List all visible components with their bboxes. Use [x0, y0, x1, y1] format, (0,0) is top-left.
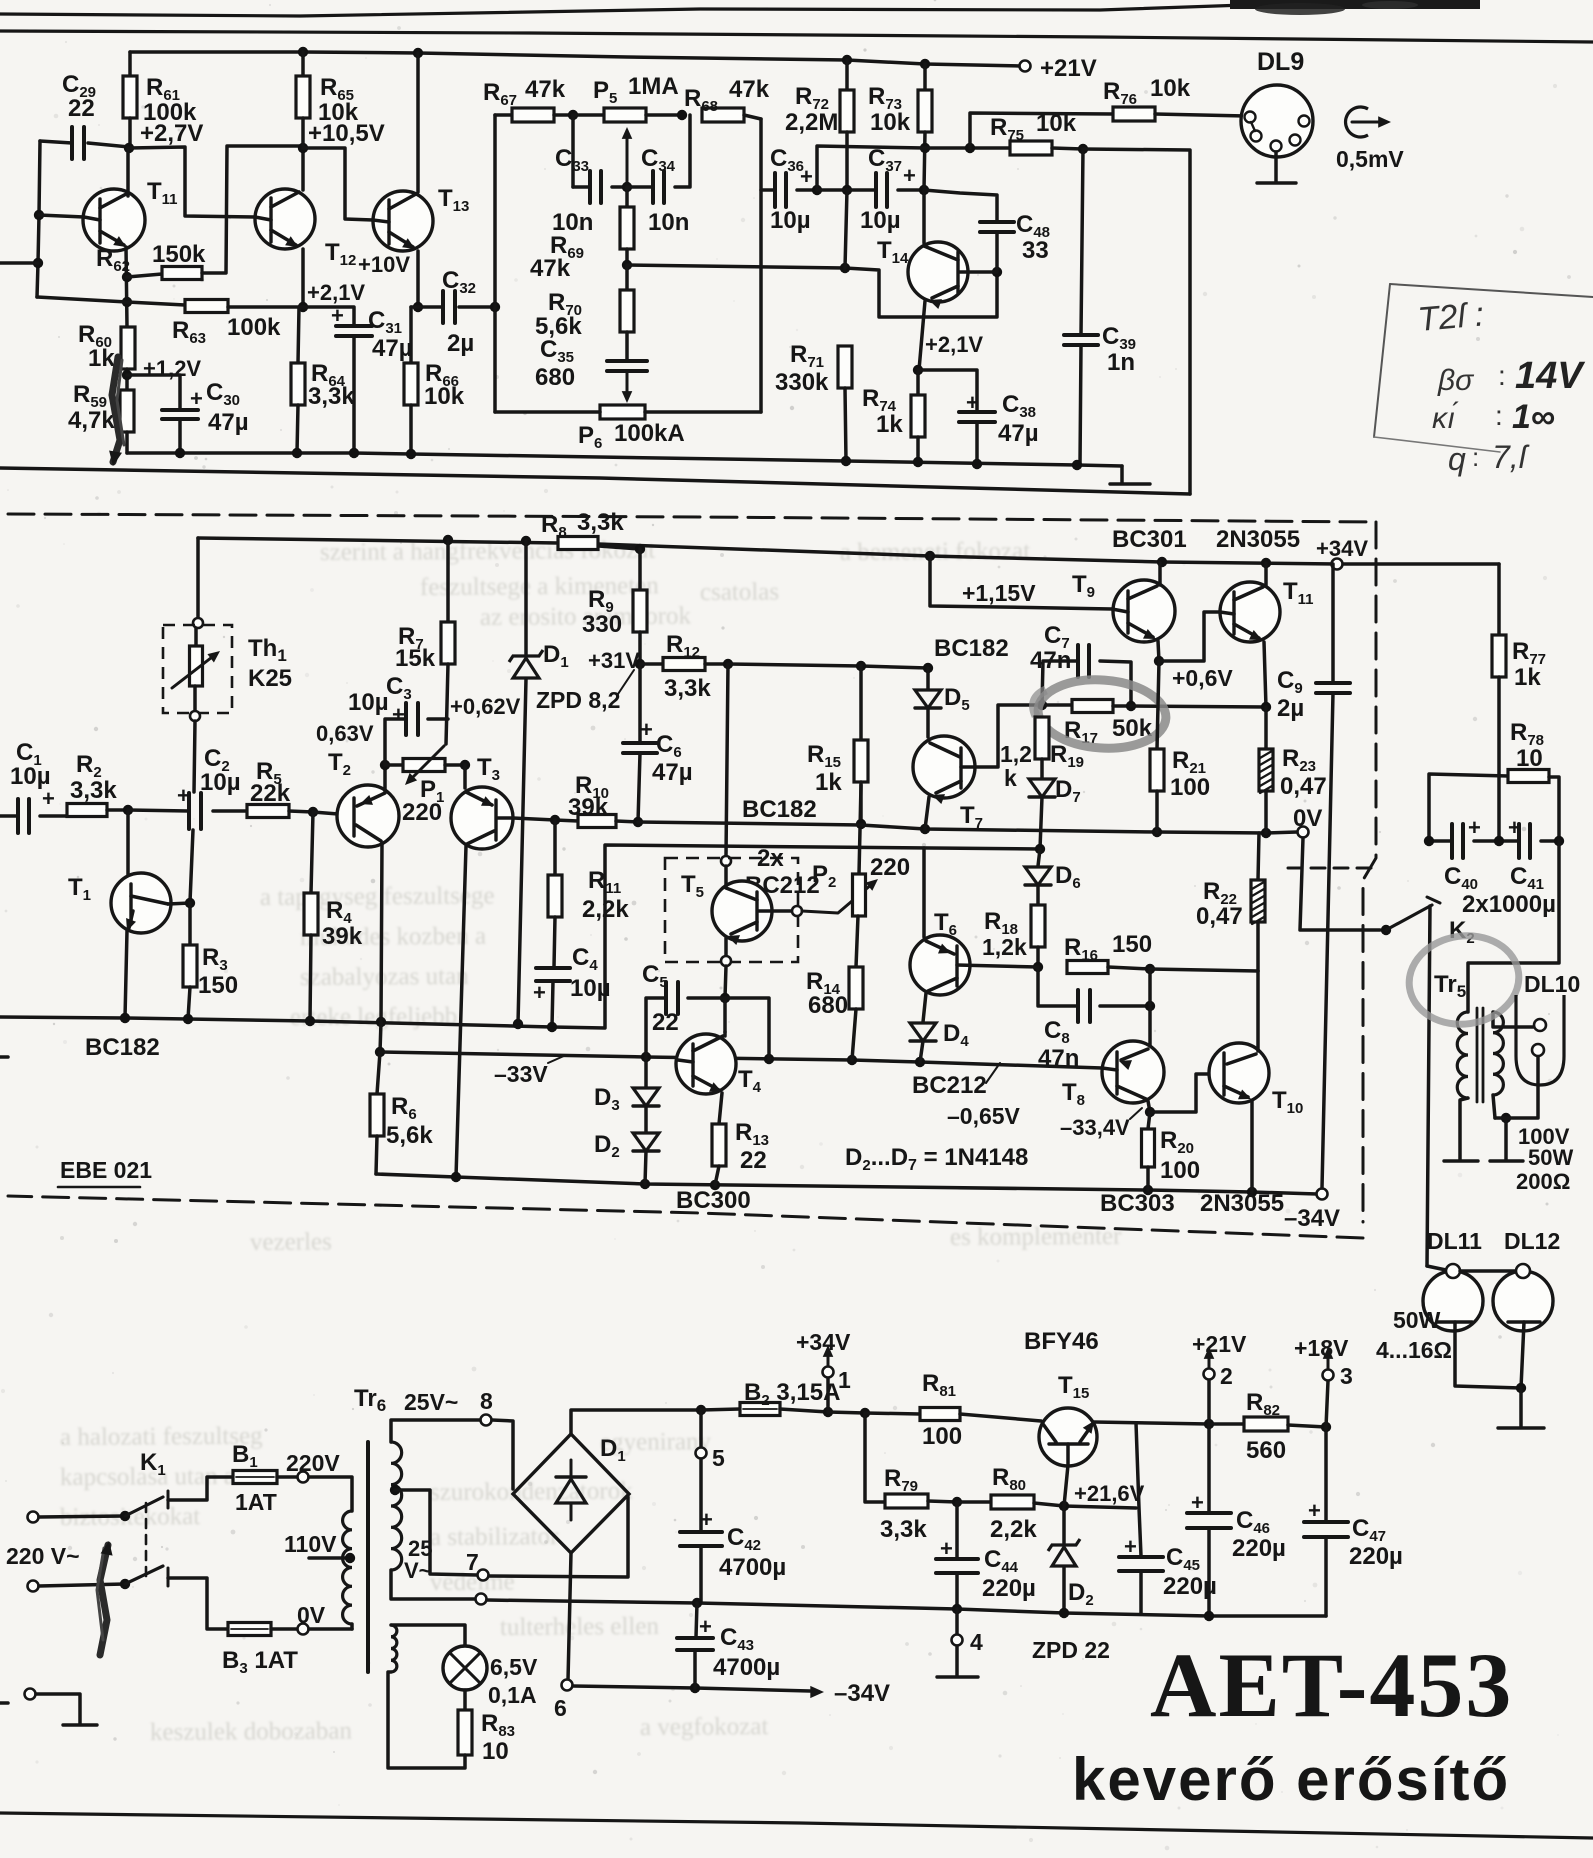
svg-text:–33,4V: –33,4V	[1060, 1115, 1130, 1140]
diode D5	[926, 668, 930, 689]
terminal 1 +34V	[826, 1378, 830, 1412]
svg-text:DL10: DL10	[1524, 971, 1580, 997]
wire top ground rail	[127, 453, 1122, 466]
svg-text:10n: 10n	[648, 209, 689, 236]
node T5 feed	[723, 659, 733, 669]
diode D6	[1038, 849, 1040, 866]
node R21-0V	[1152, 827, 1162, 837]
node C6 bottom	[633, 817, 643, 827]
resistor R59	[120, 390, 134, 432]
wire R75 line	[817, 146, 925, 190]
svg-text:100kA: 100kA	[614, 420, 685, 447]
svg-text:47n: 47n	[1038, 1045, 1079, 1072]
svg-text:8: 8	[480, 1388, 493, 1414]
transistor T9	[930, 556, 1112, 609]
node +10,5V	[298, 143, 308, 153]
node D2 gnd	[640, 1179, 650, 1189]
resistor R74	[916, 370, 920, 395]
capacitor C43	[696, 1603, 697, 1637]
resistor R71	[838, 346, 852, 388]
svg-text:14V: 14V	[1515, 355, 1585, 397]
transistor T15	[1039, 1408, 1097, 1466]
node C33 top	[568, 110, 578, 120]
pencil circle Tr5	[1403, 929, 1524, 1031]
node P1 left	[380, 760, 390, 770]
capacitor C6	[638, 664, 642, 743]
svg-text:0V: 0V	[297, 1602, 326, 1628]
capacitor C31	[303, 307, 354, 326]
svg-text:1k: 1k	[815, 769, 842, 796]
node T1 coll	[185, 898, 195, 908]
capacitor C35	[607, 359, 647, 363]
Tr6 heater winding	[391, 1625, 397, 1672]
svg-text:10: 10	[482, 1738, 509, 1765]
node R75 left	[920, 143, 930, 153]
Tr6 secondary 25V	[391, 1442, 402, 1570]
connector DL9	[1241, 85, 1313, 157]
wire C2 plate to R3	[190, 830, 193, 902]
svg-text:0,47: 0,47	[1196, 903, 1243, 930]
transistor T1	[126, 810, 130, 876]
node R23-0V	[1261, 828, 1271, 838]
svg-text:4700µ: 4700µ	[713, 1654, 780, 1681]
svg-text:1∞: 1∞	[1512, 398, 1555, 436]
svg-text:0,47: 0,47	[1280, 773, 1327, 800]
svg-text:0V: 0V	[1293, 805, 1322, 832]
svg-text:33: 33	[1022, 237, 1049, 264]
terminal +34V	[1332, 559, 1343, 570]
svg-text:k: k	[1004, 765, 1017, 791]
resistor R73	[923, 64, 927, 90]
diode D7	[1029, 779, 1055, 797]
svg-text:csatolas: csatolas	[700, 578, 779, 606]
svg-text:560: 560	[1246, 1437, 1286, 1464]
svg-text:0,63V: 0,63V	[316, 721, 374, 746]
resistor R80	[957, 1500, 991, 1504]
svg-text:tulterheles ellen: tulterheles ellen	[500, 1613, 660, 1641]
node C30 gnd	[175, 448, 185, 458]
node D5 top	[923, 663, 933, 673]
svg-text:+34V: +34V	[796, 1329, 851, 1355]
terminal +21V	[1020, 61, 1031, 72]
capacitor C33	[571, 115, 575, 187]
resistor R13	[719, 1093, 722, 1124]
wire T2 col to L2	[380, 1022, 381, 1052]
svg-text:15k: 15k	[395, 645, 436, 672]
svg-text:BC300: BC300	[676, 1187, 751, 1214]
capacitor C30	[127, 375, 180, 410]
svg-text:–33V: –33V	[494, 1061, 548, 1087]
svg-text:a vegfokozat: a vegfokozat	[640, 1713, 769, 1741]
node T4 coll loop	[764, 1054, 774, 1064]
capacitor C8	[1038, 967, 1078, 1006]
svg-text:feszultsege a kimeneten: feszultsege a kimeneten	[420, 572, 659, 601]
transistor T6	[922, 848, 926, 937]
resistor R12	[640, 662, 663, 666]
node R10-R11	[550, 815, 560, 825]
wire T8-T10 coupling	[1150, 1074, 1210, 1112]
wire R12 line	[728, 664, 928, 668]
wire bridge top to +rail	[571, 1410, 701, 1434]
svg-text:BC182: BC182	[742, 796, 817, 823]
svg-text:+1,2V: +1,2V	[143, 356, 201, 381]
svg-text:22: 22	[652, 1009, 679, 1036]
node D4 bottom	[915, 1057, 925, 1067]
svg-text:220V: 220V	[286, 1450, 340, 1476]
node T2 base	[308, 807, 318, 817]
wire mid 0V bus	[487, 1600, 1326, 1616]
zener D1 ZPD8,2	[524, 541, 528, 654]
svg-text:4,7k: 4,7k	[68, 407, 115, 434]
node rail-R72	[842, 55, 852, 65]
svg-text:q: q	[1448, 441, 1466, 477]
svg-text:22: 22	[68, 95, 95, 122]
resistor R65	[301, 52, 305, 76]
svg-text:DL9: DL9	[1257, 48, 1304, 76]
transistor T2	[313, 812, 338, 814]
svg-text:1,2: 1,2	[1000, 741, 1032, 767]
transformer Tr6 primary	[309, 1477, 352, 1511]
svg-text:2N3055: 2N3055	[1216, 526, 1300, 553]
svg-text:4...16Ω: 4...16Ω	[1376, 1337, 1452, 1363]
svg-text:10k: 10k	[424, 383, 465, 410]
node C4 bottom	[547, 1022, 557, 1032]
node R16 left	[1033, 962, 1043, 972]
svg-text:47k: 47k	[729, 76, 770, 103]
capacitor C34	[627, 185, 653, 189]
wire to right edge	[1083, 149, 1190, 494]
svg-text:6,5V: 6,5V	[490, 1654, 538, 1680]
resistor R14	[849, 967, 863, 1009]
wire C29 left/base	[40, 141, 72, 143]
resistor R15	[859, 666, 863, 740]
svg-text:BC303: BC303	[1100, 1190, 1175, 1217]
svg-text:+31V: +31V	[588, 648, 640, 673]
transistor T12	[255, 189, 315, 249]
node C32-R67	[490, 302, 500, 312]
resistor R64	[298, 307, 299, 363]
svg-text:47µ: 47µ	[208, 409, 249, 436]
svg-text:4700µ: 4700µ	[719, 1554, 786, 1581]
svg-text:220 V~: 220 V~	[6, 1543, 80, 1569]
resistor R63	[185, 300, 228, 313]
svg-text:BC182: BC182	[85, 1034, 160, 1061]
potentiometer P2	[859, 785, 861, 874]
wire T5em loop	[725, 998, 769, 1059]
svg-text:+34V: +34V	[1316, 536, 1368, 561]
svg-text:47k: 47k	[525, 76, 566, 103]
svg-text:+2,1V: +2,1V	[925, 332, 983, 357]
svg-text:a tapegyseg feszultsege: a tapegyseg feszultsege	[260, 882, 495, 911]
svg-text:200Ω: 200Ω	[1516, 1169, 1570, 1194]
node +2,7V	[124, 143, 134, 153]
svg-text:330: 330	[582, 611, 622, 638]
svg-text::: :	[1498, 360, 1506, 391]
node +115	[925, 551, 935, 561]
node base T11	[34, 210, 44, 220]
svg-text:+21,6V: +21,6V	[1074, 1481, 1145, 1506]
svg-text:680: 680	[535, 364, 575, 391]
wire bottom rail	[376, 1174, 1317, 1194]
wire K2 to DL11	[1427, 906, 1430, 1266]
svg-text:B2 3,15A: B2 3,15A	[744, 1379, 840, 1409]
node R2-C2	[123, 805, 133, 815]
svg-text:erteke legfeljebb: erteke legfeljebb	[290, 1003, 457, 1031]
wire T14 base feed	[627, 265, 997, 317]
wire T5 emitter down	[725, 966, 726, 998]
svg-text:10µ: 10µ	[348, 689, 389, 716]
svg-text:+: +	[699, 1614, 712, 1639]
Tr5 primary coil	[1457, 1012, 1468, 1098]
node R72-C36	[842, 185, 852, 195]
svg-text:–0,65V: –0,65V	[947, 1103, 1021, 1129]
svg-text:100k: 100k	[227, 314, 281, 341]
svg-text:keszulek dobozaban: keszulek dobozaban	[150, 1718, 353, 1746]
wire R68 right down	[759, 119, 763, 412]
svg-text:+: +	[392, 702, 405, 727]
node T14 emitter	[913, 365, 923, 375]
svg-text:szurokondenzatorok: szurokondenzatorok	[430, 1478, 633, 1506]
potentiometer P1	[385, 763, 403, 767]
node R64 gnd	[292, 448, 302, 458]
node R71 top	[840, 263, 850, 273]
svg-text:3,3k: 3,3k	[308, 383, 355, 410]
svg-text:2,2M: 2,2M	[785, 109, 838, 136]
node R15-0V	[856, 819, 866, 829]
node rail-R73	[920, 59, 930, 69]
svg-text:+2,7V: +2,7V	[140, 120, 203, 147]
svg-text:+10V: +10V	[358, 252, 410, 277]
resistor R23	[1264, 707, 1268, 749]
node C37 right	[919, 185, 929, 195]
svg-text:+: +	[800, 164, 813, 189]
diode D4	[910, 1023, 936, 1041]
node D1 top	[521, 536, 531, 546]
node R17 right	[1126, 701, 1136, 711]
transistor T11 out	[1220, 582, 1280, 642]
svg-text:22: 22	[740, 1147, 767, 1174]
potentiometer P2 wiper	[802, 884, 872, 913]
resistor R4	[311, 812, 313, 893]
potentiometer P5	[573, 113, 604, 117]
terminal -34V mid	[1317, 1189, 1328, 1200]
svg-text:2x1000µ: 2x1000µ	[1462, 891, 1556, 918]
svg-text:10µ: 10µ	[770, 207, 811, 234]
transistor T4	[723, 998, 727, 1032]
node R69 bottom	[622, 260, 632, 270]
capacitor C46	[1207, 1424, 1211, 1512]
input tick	[0, 1055, 8, 1059]
svg-text:+18V: +18V	[1294, 1335, 1349, 1361]
fuse B1	[168, 1477, 233, 1500]
resistor R67	[495, 113, 512, 117]
svg-text:a bemeneti fokozat: a bemeneti fokozat	[840, 538, 1030, 566]
ground step	[1120, 466, 1124, 483]
svg-text:+0,62V: +0,62V	[450, 694, 521, 719]
svg-text:DL11: DL11	[1427, 1228, 1482, 1254]
svg-text:2: 2	[1220, 1363, 1233, 1389]
svg-text:10k: 10k	[870, 109, 911, 136]
svg-text:1AT: 1AT	[235, 1489, 277, 1515]
svg-text:50W: 50W	[1528, 1145, 1573, 1170]
svg-text:10µ: 10µ	[200, 769, 241, 796]
svg-text:150k: 150k	[152, 241, 206, 268]
capacitor C36	[761, 188, 775, 192]
svg-text:220µ: 220µ	[1232, 1535, 1286, 1562]
svg-text:4: 4	[970, 1629, 983, 1655]
jack symbol	[1346, 107, 1368, 137]
svg-text:2µ: 2µ	[1277, 695, 1304, 722]
capacitor C38	[918, 370, 977, 412]
transformer Tr5	[1468, 841, 1559, 1012]
pencil ellipse R17	[1036, 676, 1168, 753]
svg-text:1k: 1k	[876, 411, 903, 438]
node T9 coll	[1157, 557, 1167, 567]
svg-text:150: 150	[198, 972, 238, 999]
wire T12 emitter	[301, 249, 305, 307]
svg-text:330k: 330k	[775, 369, 829, 396]
resistor R81	[865, 1413, 920, 1414]
transistor T14	[922, 190, 926, 243]
node R14 bottom	[847, 1055, 857, 1065]
node R66 gnd	[406, 449, 416, 459]
capacitors C40 C41	[1429, 839, 1452, 843]
node R75 right	[1078, 144, 1088, 154]
node R3 bottom	[183, 1014, 193, 1024]
capacitor C39	[1081, 149, 1083, 335]
svg-text:39k: 39k	[568, 794, 609, 821]
zener D2 ZPD22	[1062, 1506, 1066, 1543]
resistor R76	[1113, 107, 1155, 121]
svg-text:ZPD 8,2: ZPD 8,2	[536, 687, 620, 713]
wire T8 collector	[1148, 969, 1152, 1046]
node input	[33, 258, 43, 268]
svg-text:3: 3	[1340, 1363, 1353, 1389]
node R71 gnd	[841, 456, 851, 466]
resistor R8	[558, 537, 598, 550]
node C31 gnd	[349, 448, 359, 458]
svg-text:+21V: +21V	[1040, 55, 1097, 82]
diode D3	[644, 1057, 648, 1087]
svg-text:1k: 1k	[88, 345, 115, 372]
svg-text:BC212: BC212	[912, 1072, 987, 1099]
resistor R79	[865, 1413, 885, 1502]
node C5	[720, 993, 730, 1003]
node T11 emitter	[1261, 702, 1271, 712]
wire R72 to T14 line	[845, 190, 847, 268]
svg-text:2µ: 2µ	[447, 330, 474, 357]
svg-text:110V: 110V	[284, 1531, 337, 1557]
terminal 0V	[1298, 827, 1309, 838]
resistor R18	[1031, 905, 1045, 947]
terminal 5 / C42	[699, 1410, 703, 1448]
svg-text:vezerles: vezerles	[250, 1228, 332, 1256]
wire +2,7V to T12 base	[129, 147, 255, 217]
svg-text:7,ſ: 7,ſ	[1492, 439, 1530, 475]
svg-text:–34V: –34V	[1284, 1205, 1340, 1232]
svg-text:39k: 39k	[322, 923, 363, 950]
svg-text:220: 220	[402, 799, 442, 826]
node T14 base	[992, 267, 1002, 277]
diode D2	[644, 1106, 648, 1132]
bridge rectifier D1	[513, 1434, 629, 1553]
svg-text:6: 6	[554, 1695, 567, 1721]
transistor T7	[913, 736, 975, 798]
terminal 4 gnd	[955, 1609, 959, 1635]
node R16 right	[1145, 964, 1155, 974]
wire Th1 down to C2	[194, 721, 195, 792]
svg-text:1n: 1n	[1107, 349, 1135, 376]
svg-text:47n: 47n	[1030, 647, 1071, 674]
svg-text:a stabilizator: a stabilizator	[430, 1523, 559, 1551]
svg-text:220µ: 220µ	[982, 1575, 1036, 1602]
svg-text:220: 220	[870, 854, 910, 881]
svg-text:+: +	[177, 783, 190, 808]
svg-text:+: +	[1308, 1498, 1321, 1523]
svg-text:0,1A: 0,1A	[488, 1682, 537, 1708]
svg-text:7: 7	[466, 1549, 479, 1575]
wire T10 collector	[1256, 971, 1260, 1051]
svg-text:+0,6V: +0,6V	[1172, 665, 1233, 691]
resistor R16	[1067, 961, 1108, 974]
resistor R83	[463, 1690, 467, 1710]
svg-text:22k: 22k	[250, 780, 291, 807]
capacitor C7	[1042, 661, 1078, 705]
resistor R17	[1042, 703, 1072, 707]
node C8 right	[1145, 1001, 1155, 1011]
svg-text:1,2k: 1,2k	[982, 934, 1027, 960]
svg-text:κı́: κı́	[1432, 402, 1459, 435]
svg-text:+21V: +21V	[1192, 1331, 1247, 1357]
capacitor C4	[536, 966, 570, 970]
svg-text::: :	[1472, 442, 1479, 472]
svg-text:+: +	[190, 386, 203, 411]
svg-text:BFY46: BFY46	[1024, 1328, 1099, 1355]
wire base T11	[39, 215, 84, 217]
capacitor C37	[874, 173, 878, 207]
svg-text:47k: 47k	[530, 255, 571, 282]
node T13 emitter	[413, 302, 423, 312]
node T8 emitter	[1145, 1107, 1155, 1117]
resistor R19	[1035, 717, 1049, 759]
node +31V	[635, 659, 645, 669]
capacitor C5	[688, 996, 725, 1000]
wire L2 -33V line	[380, 1052, 1102, 1068]
svg-text:680: 680	[808, 992, 848, 1019]
resistor R3	[188, 903, 192, 945]
DL9 ground	[1274, 152, 1278, 182]
switch K1	[125, 1497, 163, 1516]
handwritten note box	[1390, 284, 1593, 297]
transistor T3	[463, 765, 467, 788]
dashed border right	[1363, 522, 1376, 1222]
svg-text:220µ: 220µ	[1349, 1543, 1403, 1570]
svg-text:10: 10	[1516, 745, 1543, 772]
svg-text:+: +	[1191, 1490, 1204, 1515]
node wiper	[622, 182, 632, 192]
transistor T5 thermal	[726, 664, 728, 856]
resistor R9	[638, 549, 642, 590]
svg-text:AET-453: AET-453	[1150, 1634, 1513, 1736]
svg-text:1k: 1k	[1514, 664, 1541, 691]
node R19 top	[1037, 700, 1047, 710]
svg-text:K25: K25	[248, 665, 292, 692]
node R76 tap	[965, 143, 975, 153]
Tr6 core	[366, 1442, 370, 1672]
node R63 junction	[122, 297, 132, 307]
wire -34V line	[573, 1686, 810, 1691]
svg-text:T2ſ :: T2ſ :	[1416, 295, 1485, 339]
